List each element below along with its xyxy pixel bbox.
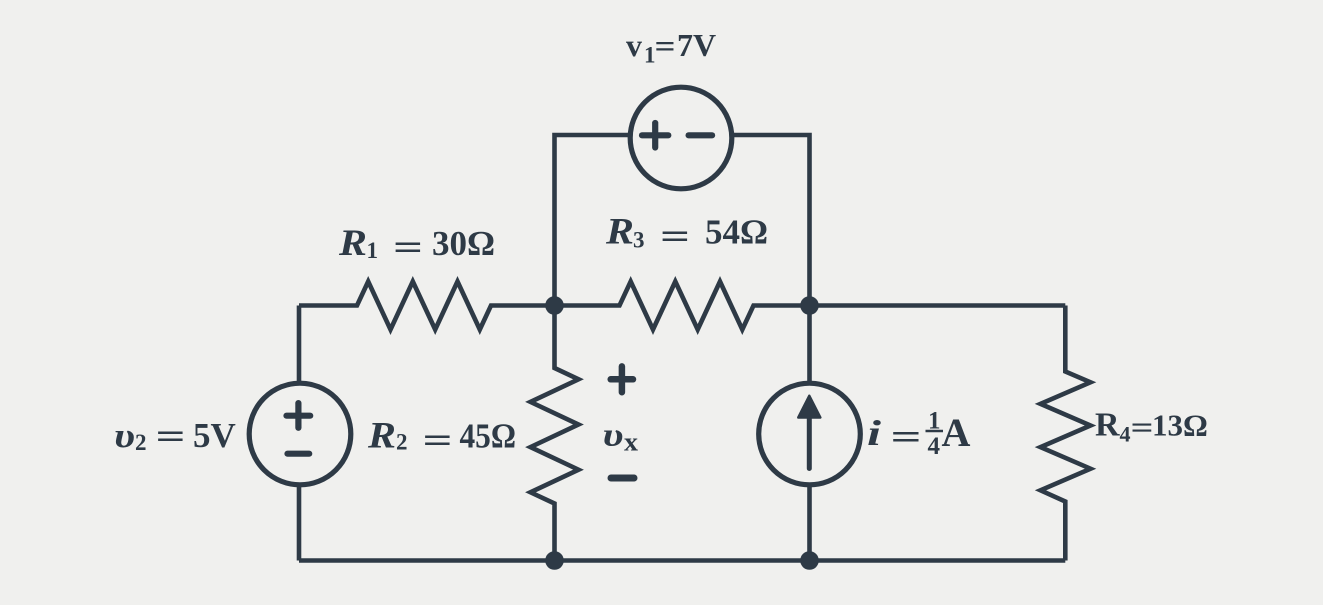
svg-text:2: 2	[135, 430, 147, 455]
svg-text:4: 4	[928, 433, 941, 460]
svg-text:=: =	[660, 217, 690, 256]
svg-text:R: R	[605, 212, 634, 253]
svg-text:=: =	[891, 417, 922, 457]
svg-text:4: 4	[1120, 422, 1131, 447]
svg-text:R: R	[367, 416, 396, 457]
svg-text:=: =	[1131, 409, 1154, 444]
svg-text:υ: υ	[603, 418, 624, 454]
svg-text:13Ω: 13Ω	[1152, 408, 1208, 443]
svg-text:i: i	[867, 413, 881, 453]
svg-text:1: 1	[367, 238, 379, 263]
svg-text:=: =	[156, 417, 186, 456]
svg-text:5V: 5V	[193, 416, 236, 455]
svg-text:30Ω: 30Ω	[432, 224, 495, 263]
svg-text:54Ω: 54Ω	[705, 213, 768, 252]
svg-text:45Ω: 45Ω	[460, 417, 517, 456]
svg-text:x: x	[624, 428, 638, 457]
svg-text:R: R	[338, 223, 367, 264]
svg-text:2: 2	[396, 430, 408, 455]
svg-text:=: =	[393, 228, 423, 267]
svg-text:=: =	[655, 28, 676, 64]
svg-text:=: =	[423, 421, 453, 460]
svg-text:v: v	[626, 27, 642, 63]
svg-text:3: 3	[633, 228, 645, 253]
svg-text:R: R	[1095, 407, 1120, 444]
svg-text:υ: υ	[114, 416, 135, 455]
svg-text:7V: 7V	[677, 27, 716, 63]
svg-text:A: A	[942, 410, 971, 455]
